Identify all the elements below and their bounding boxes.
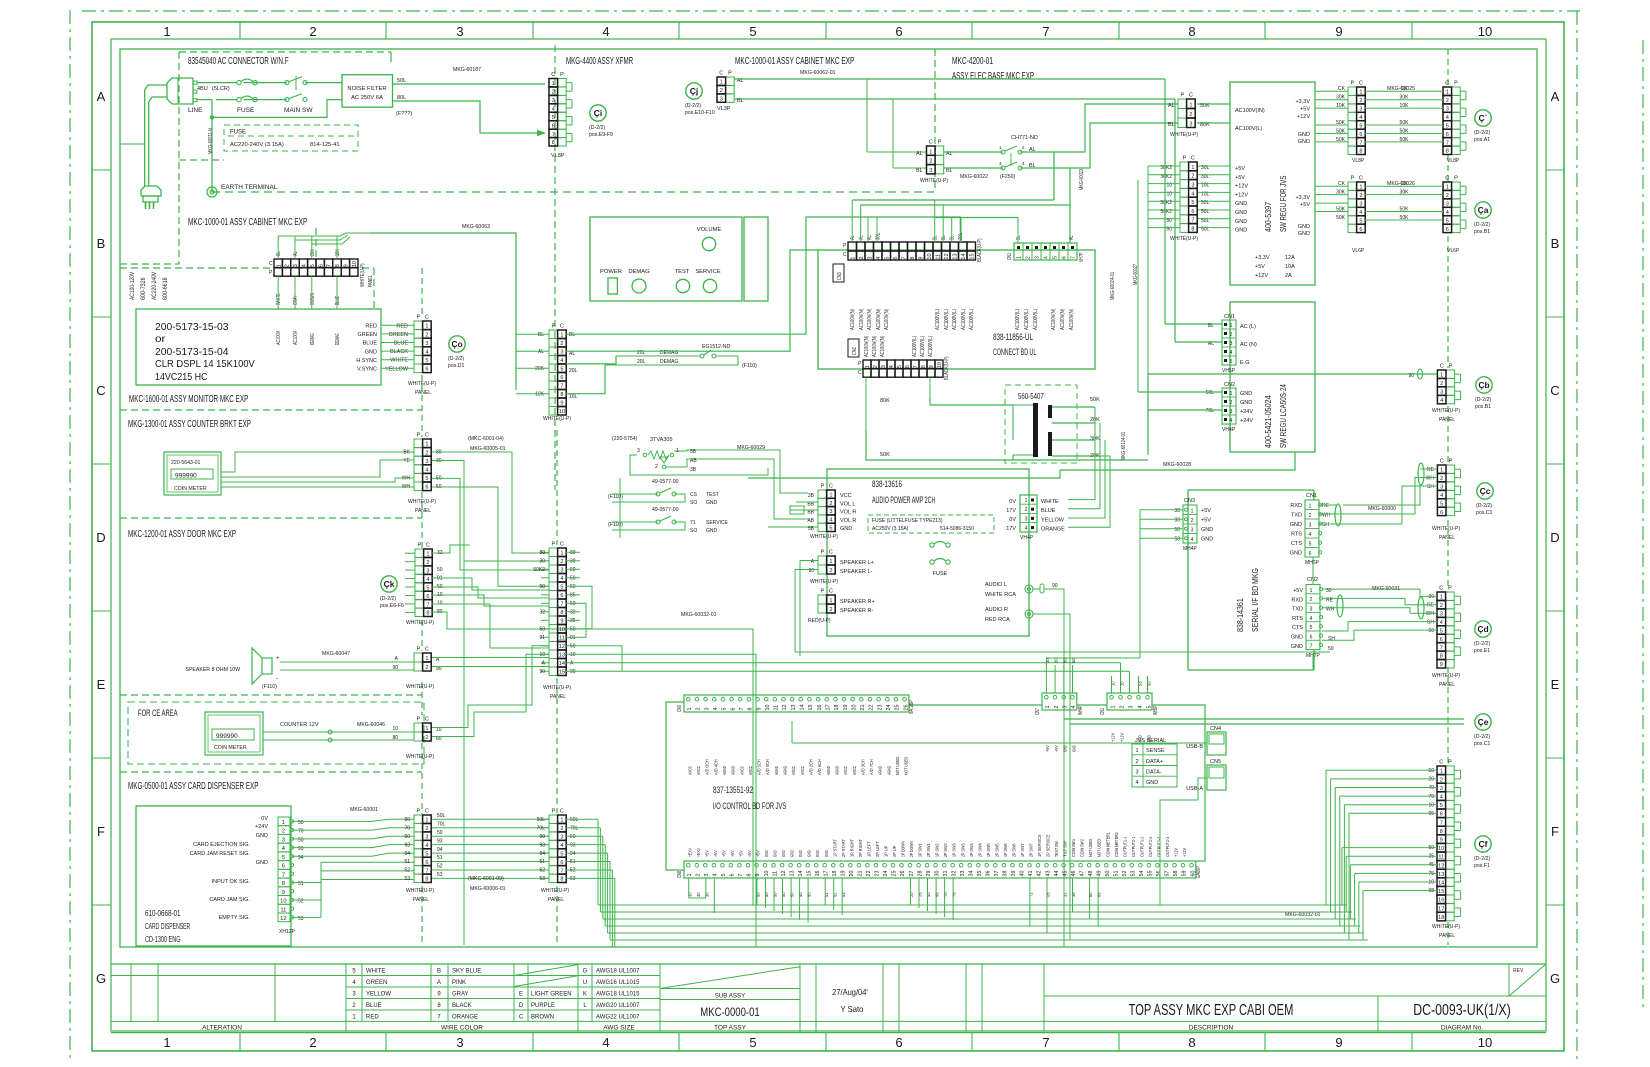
svg-text:1: 1 [425, 324, 428, 330]
svg-text:AC100V(N): AC100V(N) [850, 309, 856, 330]
boundary counter/door [120, 517, 422, 519]
svg-text:AGND: AGND [826, 766, 832, 775]
wire color diagonal blanks [514, 976, 578, 987]
svg-text:TEST: TEST [675, 269, 690, 275]
svg-text:GND: GND [1146, 780, 1158, 786]
svg-text:10: 10 [559, 627, 565, 633]
svg-text:6: 6 [1191, 209, 1194, 215]
svg-text:CN4: CN4 [1210, 726, 1221, 732]
svg-text:MH4P: MH4P [1183, 546, 1198, 552]
svg-text:COUNTER 12V: COUNTER 12V [280, 722, 319, 728]
svg-text:COIN METER: COIN METER [174, 486, 207, 492]
svg-text:0V: 0V [1009, 499, 1016, 505]
svg-text:1: 1 [426, 552, 429, 558]
svg-text:2: 2 [1054, 706, 1060, 709]
svg-text:17V: 17V [1006, 526, 1016, 532]
svg-text:FUSE: FUSE [237, 107, 255, 114]
svg-text:6: 6 [318, 264, 324, 267]
svg-text:AC100V(L): AC100V(L) [920, 336, 926, 357]
svg-text:+12V: +12V [1174, 847, 1180, 857]
svg-text:51: 51 [437, 855, 443, 861]
svg-text:4: 4 [1135, 780, 1138, 786]
svg-text:7: 7 [1042, 24, 1049, 39]
svg-text:MKC-1600-01 ASSY MONITOR MKC E: MKC-1600-01 ASSY MONITOR MKC EXP [129, 393, 248, 405]
svg-text:VOLUME: VOLUME [697, 227, 722, 233]
svg-text:838-11856-UL: 838-11856-UL [993, 332, 1033, 342]
svg-text:WHITE(U-P): WHITE(U-P) [1432, 673, 1460, 679]
svg-text:DC-0093-UK(1/X): DC-0093-UK(1/X) [1413, 1002, 1511, 1019]
alteration cell verticals [130, 964, 132, 1021]
svg-text:40: 40 [1020, 871, 1026, 877]
svg-text:Çe: Çe [1478, 717, 1489, 727]
svg-text:6: 6 [1446, 132, 1449, 138]
svg-text:GND: GND [840, 526, 852, 532]
svg-text:4: 4 [425, 468, 428, 474]
svg-text:9: 9 [756, 708, 762, 711]
svg-text:6: 6 [425, 485, 428, 491]
connector VL8P regu right [1452, 87, 1461, 95]
svg-text:GND: GND [1298, 132, 1310, 138]
svg-text:3B: 3B [808, 493, 815, 499]
svg-text:+12V: +12V [1255, 273, 1268, 279]
svg-text:(D-2/2): (D-2/2) [589, 125, 605, 131]
svg-text:CN1: CN1 [1306, 493, 1317, 499]
svg-text:COIN METER1: COIN METER1 [1105, 832, 1111, 857]
svg-text:PANEL: PANEL [548, 897, 564, 903]
svg-text:MKG-60062-01: MKG-60062-01 [800, 70, 836, 76]
svg-text:BLUE: BLUE [335, 295, 341, 305]
svg-text:CH771-ND: CH771-ND [1011, 135, 1038, 141]
svg-text:3: 3 [426, 569, 429, 575]
svg-text:10: 10 [1438, 846, 1444, 852]
svg-text:5: 5 [560, 585, 563, 591]
svg-text:1P SERVICE: 1P SERVICE [1037, 834, 1043, 857]
svg-text:GND: GND [824, 850, 830, 857]
svg-text:4: 4 [1440, 620, 1443, 626]
svg-text:13: 13 [559, 653, 565, 659]
svg-text:50: 50 [570, 644, 576, 650]
svg-text:2: 2 [425, 665, 428, 671]
svg-text:BL: BL [916, 168, 923, 174]
svg-text:42: 42 [1037, 871, 1043, 877]
svg-text:POWER: POWER [600, 269, 622, 275]
svg-text:400-5397: 400-5397 [1264, 201, 1273, 232]
boundary right panel vertical [1447, 49, 1449, 85]
svg-text:999990: 999990 [175, 473, 197, 480]
svg-text:1: 1 [425, 442, 428, 448]
connector CN7 [1042, 693, 1077, 710]
svg-text:CARD DISPENSER: CARD DISPENSER [145, 921, 190, 931]
svg-text:AC100V(L): AC100V(L) [1024, 309, 1030, 330]
svg-text:BL: BL [538, 332, 544, 338]
svg-text:MKG-60001: MKG-60001 [350, 807, 378, 813]
svg-text:SPEAKER 8 OHM 10W: SPEAKER 8 OHM 10W [186, 667, 241, 673]
svg-text:3: 3 [1230, 341, 1233, 347]
svg-text:8: 8 [552, 140, 555, 146]
svg-text:VH5P: VH5P [1222, 368, 1236, 374]
svg-text:MKG-60187: MKG-60187 [453, 67, 481, 73]
speaker wires through [432, 657, 549, 659]
svg-text:GND: GND [1235, 219, 1247, 225]
svg-text:4: 4 [560, 843, 563, 849]
svg-text:1: 1 [687, 874, 693, 877]
door 8pin wires right [432, 545, 470, 553]
svg-text:3: 3 [1191, 528, 1194, 534]
svg-text:MKG-4400 ASSY XFMR: MKG-4400 ASSY XFMR [566, 55, 633, 67]
AC plug pins [193, 81, 197, 84]
svg-text:4: 4 [426, 577, 429, 583]
svg-text:RE: RE [1427, 603, 1435, 609]
svg-text:GND: GND [790, 850, 796, 857]
svg-text:1: 1 [1359, 90, 1362, 96]
svg-text:P: P [728, 71, 732, 77]
svg-text:93: 93 [404, 842, 410, 848]
svg-text:MKG-60011-N: MKG-60011-N [208, 128, 214, 154]
svg-text:P: P [1350, 81, 1354, 87]
svg-text:AC100V(N): AC100V(N) [867, 309, 873, 330]
svg-text:2: 2 [425, 735, 428, 741]
svg-text:AGND: AGND [774, 766, 780, 775]
svg-text:4: 4 [1025, 526, 1028, 532]
svg-text:15: 15 [559, 670, 565, 676]
svg-text:13: 13 [789, 871, 795, 877]
svg-text:MKG-60000: MKG-60000 [1368, 506, 1396, 512]
svg-text:10: 10 [937, 362, 943, 368]
ID circle Ci [590, 105, 606, 121]
svg-text:4: 4 [713, 874, 719, 877]
svg-text:VH4P: VH4P [1222, 427, 1236, 433]
svg-text:50: 50 [1105, 871, 1111, 877]
svg-text:8: 8 [335, 264, 341, 267]
svg-text:51: 51 [1114, 871, 1120, 877]
svg-text:4: 4 [560, 576, 563, 582]
svg-text:4: 4 [560, 358, 563, 364]
svg-text:C: C [425, 717, 429, 723]
svg-text:2: 2 [859, 257, 865, 260]
svg-text:7: 7 [282, 872, 285, 878]
wire 20L to demag [566, 356, 616, 364]
transformer windings [1033, 403, 1038, 457]
svg-text:50: 50 [570, 576, 576, 582]
svg-text:220-5643-01: 220-5643-01 [171, 460, 201, 466]
svg-text:MKG-60005-01: MKG-60005-01 [470, 446, 506, 452]
svg-text:ASSY ELEC BASE MKC EXP: ASSY ELEC BASE MKC EXP [952, 70, 1034, 82]
date cell [815, 964, 817, 1033]
svg-text:pos.E6-F6: pos.E6-F6 [380, 603, 404, 609]
svg-text:2: 2 [696, 874, 702, 877]
svg-text:4BU: 4BU [197, 86, 208, 92]
connector white 3pin regu [1178, 99, 1187, 109]
svg-text:8: 8 [560, 610, 563, 616]
svg-text:1P DOWN: 1P DOWN [901, 841, 907, 857]
wire AL to connect bd [566, 250, 818, 351]
svg-text:MKG-60006-01: MKG-60006-01 [470, 886, 506, 892]
svg-text:YELLOW: YELLOW [366, 991, 391, 997]
svg-text:GND: GND [1235, 201, 1247, 207]
svg-text:12: 12 [559, 644, 565, 650]
svg-text:2: 2 [829, 607, 832, 613]
svg-text:17: 17 [1438, 906, 1444, 912]
svg-text:SW REGU LCA50S-24: SW REGU LCA50S-24 [1279, 384, 1288, 448]
svg-text:BL: BL [941, 235, 947, 240]
svg-text:15: 15 [808, 705, 814, 711]
wires CN1 regu2 [1165, 323, 1222, 325]
svg-text:INPUT OK SIG.: INPUT OK SIG. [212, 879, 251, 885]
svg-text:32: 32 [951, 871, 957, 877]
svg-text:MKG-60022: MKG-60022 [960, 174, 988, 180]
svg-text:WHITE(U-P): WHITE(U-P) [406, 888, 434, 894]
svg-text:CONNECT BD UL: CONNECT BD UL [993, 347, 1036, 357]
svg-text:AC100V(N): AC100V(N) [864, 336, 870, 357]
svg-text:4: 4 [1309, 532, 1312, 538]
svg-text:15: 15 [1438, 889, 1444, 895]
svg-text:90: 90 [1052, 583, 1058, 589]
amp speaker L wires [800, 560, 818, 562]
svg-text:AC100V(N): AC100V(N) [884, 309, 890, 330]
svg-text:GRAY: GRAY [452, 991, 469, 997]
svg-text:RED RCA: RED RCA [985, 617, 1010, 623]
svg-text:51: 51 [539, 859, 545, 865]
svg-text:WH5P: WH5P [1153, 705, 1159, 715]
svg-text:3: 3 [881, 365, 887, 368]
svg-text:8: 8 [1440, 829, 1443, 835]
svg-text:10: 10 [352, 261, 358, 267]
svg-text:A/D 5CH: A/D 5CH [765, 759, 771, 775]
svg-text:P: P [1448, 586, 1452, 592]
svg-text:GND: GND [706, 500, 718, 506]
wires 8pin regu to box [1198, 165, 1230, 167]
svg-text:MKG-60032-01: MKG-60032-01 [1285, 912, 1321, 918]
svg-text:6: 6 [1359, 227, 1362, 233]
svg-text:71: 71 [690, 520, 696, 526]
svg-text:8: 8 [921, 365, 927, 368]
svg-text:50: 50 [570, 601, 576, 607]
svg-text:12: 12 [1438, 863, 1444, 869]
svg-text:DIAGRAM No.: DIAGRAM No. [1441, 1025, 1483, 1032]
svg-text:33: 33 [960, 871, 966, 877]
svg-text:3: 3 [1191, 183, 1194, 189]
svg-text:BL: BL [276, 251, 282, 256]
io board top wire [909, 704, 1042, 706]
svg-text:4: 4 [1191, 191, 1194, 197]
boundary monitor/counter [120, 409, 422, 411]
svg-text:4: 4 [1191, 537, 1194, 543]
svg-text:AC100V(L): AC100V(L) [912, 336, 918, 357]
svg-text:1: 1 [1025, 498, 1028, 504]
svg-text:2: 2 [1440, 777, 1443, 783]
svg-text:3: 3 [425, 341, 428, 347]
svg-text:GND: GND [1235, 210, 1247, 216]
svg-text:AC250V (3.15A): AC250V (3.15A) [872, 526, 909, 532]
svg-text:D: D [519, 1003, 524, 1009]
svg-text:RE: RE [1322, 503, 1330, 509]
coin meter connector 6pin [414, 439, 423, 448]
svg-text:3: 3 [637, 448, 640, 454]
svg-text:SUB ASSY: SUB ASSY [715, 993, 746, 1000]
CN2 wires down [865, 377, 867, 430]
svg-text:PURPLE: PURPLE [531, 1003, 555, 1009]
svg-text:(D-2/2): (D-2/2) [1474, 222, 1490, 228]
svg-text:13: 13 [791, 705, 797, 711]
svg-text:999990: 999990 [216, 733, 238, 740]
connector CN3 connect-bd [848, 242, 857, 251]
svg-text:SENSE: SENSE [1146, 748, 1165, 754]
svg-text:GREEN: GREEN [366, 980, 387, 986]
svg-text:-: - [276, 676, 278, 682]
svg-text:C: C [1445, 81, 1449, 87]
svg-text:+5V: +5V [739, 850, 745, 857]
svg-text:SH: SH [1427, 484, 1434, 490]
svg-text:pos.B1: pos.B1 [1474, 229, 1490, 235]
svg-text:7: 7 [913, 365, 919, 368]
svg-text:+5V: +5V [1045, 745, 1051, 752]
svg-text:WH: WH [1322, 513, 1331, 519]
svg-text:AC100V(L): AC100V(L) [969, 309, 975, 330]
svg-text:+5V: +5V [1293, 588, 1303, 594]
svg-text:2: 2 [1440, 381, 1443, 387]
speaker symbol [262, 658, 272, 674]
svg-text:RTS: RTS [1291, 532, 1302, 538]
ferrite bead Cd [1418, 597, 1424, 619]
svg-text:OUTPUT2-3: OUTPUT2-3 [1165, 836, 1171, 857]
svg-text:5: 5 [352, 968, 356, 974]
svg-text:F: F [1551, 824, 1559, 839]
CN7 wires top [1045, 665, 1047, 693]
svg-text:MKG-60023: MKG-60023 [1079, 169, 1085, 190]
svg-text:GND: GND [1298, 139, 1310, 145]
svg-text:5: 5 [560, 367, 563, 373]
io board outline bracket [666, 702, 684, 870]
svg-text:1: 1 [720, 80, 723, 86]
svg-text:P: P [820, 550, 824, 556]
svg-text:MKG-60024-01: MKG-60024-01 [1110, 272, 1116, 300]
svg-text:P: P [820, 589, 824, 595]
svg-text:50: 50 [437, 567, 443, 573]
svg-text:pos.B1: pos.B1 [1475, 404, 1491, 410]
svg-text:WHITE: WHITE [276, 293, 282, 305]
earth terminal symbol [207, 187, 217, 197]
svg-text:9: 9 [918, 257, 924, 260]
svg-text:K: K [583, 991, 587, 997]
svg-text:CN2: CN2 [852, 347, 858, 355]
boundary monitor top [120, 267, 374, 269]
svg-text:AC (N): AC (N) [1240, 342, 1257, 348]
svg-text:1: 1 [1135, 748, 1138, 754]
svg-text:8: 8 [1440, 654, 1443, 660]
svg-text:8: 8 [560, 392, 563, 398]
svg-text:7: 7 [1071, 256, 1077, 259]
svg-text:CN3: CN3 [837, 272, 843, 280]
svg-text:AGND: AGND [878, 766, 884, 775]
svg-text:41: 41 [1028, 871, 1034, 877]
svg-text:1: 1 [425, 726, 428, 732]
svg-text:CN6: CN6 [677, 705, 683, 712]
svg-text:49-0577-00: 49-0577-00 [652, 479, 679, 485]
svg-text:2: 2 [655, 464, 658, 470]
main switch poles [285, 81, 289, 85]
svg-text:(F110): (F110) [742, 363, 757, 369]
svg-text:(D-2/2): (D-2/2) [1476, 503, 1492, 509]
svg-text:AVCC: AVCC [696, 766, 702, 775]
svg-text:P: P [551, 324, 555, 330]
ID circle Cb [1476, 377, 1492, 393]
row ticks left [92, 169, 111, 171]
svg-text:CN7: CN7 [1035, 708, 1041, 715]
svg-text:(220-5754): (220-5754) [612, 436, 638, 442]
amp VH4P connector [1020, 495, 1037, 532]
svg-text:+12V: +12V [1235, 184, 1248, 190]
svg-text:1: 1 [1310, 588, 1313, 594]
svg-text:GREEN: GREEN [388, 332, 408, 338]
monitor box [136, 309, 381, 385]
svg-text:1P SW6: 1P SW6 [1003, 843, 1009, 857]
svg-text:AC100V(N): AC100V(N) [872, 336, 878, 357]
svg-text:16: 16 [1438, 898, 1444, 904]
svg-text:814-125-41: 814-125-41 [310, 142, 340, 148]
connector VL6P regu right [1452, 182, 1461, 190]
svg-text:3: 3 [425, 459, 428, 465]
svg-text:93: 93 [437, 838, 443, 844]
svg-text:(D-2/2): (D-2/2) [1474, 734, 1490, 740]
svg-text:50: 50 [1062, 658, 1068, 663]
svg-text:38: 38 [1003, 871, 1009, 877]
svg-text:15: 15 [969, 253, 975, 259]
svg-text:3: 3 [425, 835, 428, 841]
svg-text:VH4P: VH4P [1020, 535, 1034, 541]
svg-text:1: 1 [352, 1014, 356, 1020]
svg-text:30: 30 [1174, 518, 1180, 524]
svg-text:1: 1 [425, 818, 428, 824]
svg-text:+24V: +24V [255, 824, 268, 830]
svg-text:14: 14 [798, 871, 804, 877]
svg-text:AC100-120V: AC100-120V [130, 272, 136, 300]
svg-text:(MKC-6001-04): (MKC-6001-04) [468, 436, 504, 442]
svg-text:(D-2/2): (D-2/2) [380, 596, 396, 602]
svg-text:1: 1 [425, 656, 428, 662]
svg-text:70: 70 [404, 826, 410, 832]
label CN3 box [833, 264, 844, 282]
svg-text:1: 1 [929, 149, 932, 155]
svg-text:MKC-1000-01 ASSY CABINET MKC E: MKC-1000-01 ASSY CABINET MKC EXP [188, 216, 307, 228]
amp speaker L connector [818, 556, 827, 565]
svg-text:MH6P: MH6P [1305, 560, 1320, 566]
svg-text:WHITE: WHITE [390, 358, 408, 364]
svg-text:GND: GND [807, 850, 813, 857]
svg-text:BROWN: BROWN [531, 1014, 554, 1020]
svg-text:A/D 7CH: A/D 7CH [869, 759, 875, 775]
svg-text:1P UP: 1P UP [884, 846, 890, 857]
svg-text:8: 8 [1191, 227, 1194, 233]
svg-text:8: 8 [1359, 149, 1362, 155]
svg-text:17V: 17V [1006, 508, 1016, 514]
wire BL to connect bd [566, 217, 961, 334]
svg-text:3: 3 [1035, 256, 1041, 259]
svg-text:WHITE(U-P): WHITE(U-P) [408, 381, 436, 387]
svg-text:3: 3 [704, 708, 710, 711]
svg-text:WH: WH [1426, 475, 1435, 481]
svg-text:BLUE: BLUE [363, 341, 378, 347]
svg-text:4: 4 [1310, 616, 1313, 622]
svg-text:22: 22 [866, 871, 872, 877]
svg-text:+12V: +12V [1182, 847, 1188, 857]
svg-text:7: 7 [560, 384, 563, 390]
svg-text:VL6P: VL6P [1352, 248, 1365, 254]
svg-text:PANEL: PANEL [1439, 682, 1455, 688]
svg-text:TEST: TEST [706, 492, 719, 498]
svg-text:52: 52 [404, 868, 410, 874]
svg-text:SKY BLUE: SKY BLUE [452, 968, 481, 974]
svg-text:A: A [570, 661, 574, 667]
